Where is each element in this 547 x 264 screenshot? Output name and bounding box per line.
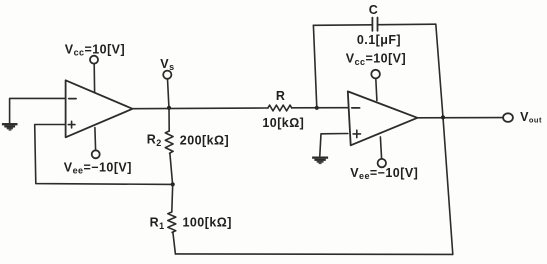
op-amp U1	[66, 80, 133, 137]
svg-text:200[kΩ]: 200[kΩ]	[180, 134, 229, 148]
wire U2 output	[417, 117, 503, 119]
wire Vs terminal to node A	[168, 79, 169, 107]
junction node B	[171, 182, 175, 186]
terminal Vee U1	[92, 150, 100, 158]
svg-text:Vcc=10[V]: Vcc=10[V]	[346, 51, 406, 66]
svg-text:C: C	[369, 3, 378, 17]
ground G1 (U1 inverting input)	[2, 124, 18, 130]
terminal Vcc U2	[371, 70, 380, 79]
svg-text:Vcc=10[V]: Vcc=10[V]	[65, 42, 125, 57]
terminal Vcc U1	[90, 56, 98, 64]
wire output node to capacitor top rail	[436, 24, 443, 117]
junction node D (output feedback node)	[441, 115, 445, 119]
wire Vee U1	[94, 128, 97, 151]
svg-text:R: R	[276, 89, 285, 103]
terminal Vee U2	[378, 159, 386, 167]
wire U1 inverting input to ground	[10, 98, 66, 123]
wire Vcc U2	[376, 79, 377, 101]
svg-text:R1: R1	[150, 216, 165, 232]
wire capacitor branch left riser	[313, 25, 316, 107]
wire Vcc U1	[93, 64, 95, 93]
wire R1 to bottom rail	[173, 232, 176, 254]
resistor R2	[165, 131, 173, 153]
terminal Vs	[163, 71, 171, 79]
wire Vee U2	[380, 137, 381, 159]
svg-text:100[kΩ]: 100[kΩ]	[183, 215, 232, 229]
wire R2 to node B	[170, 153, 173, 184]
wire node A to R2	[168, 108, 170, 131]
junction node C (U2 inverting input)	[315, 106, 319, 110]
wire capacitor top rail (right)	[378, 23, 436, 26]
svg-text:R2: R2	[147, 133, 162, 149]
resistor R1	[168, 212, 176, 232]
wire capacitor top rail (left)	[313, 24, 372, 27]
junction node A	[167, 106, 171, 110]
capacitor C	[372, 18, 377, 31]
resistor R	[268, 105, 292, 111]
wire R to U2 inverting input	[292, 107, 348, 109]
svg-text:Vout: Vout	[520, 110, 542, 125]
svg-text:0.1[μF]: 0.1[μF]	[357, 33, 401, 47]
wire bottom feedback rail	[175, 253, 452, 256]
terminal Vout	[503, 113, 513, 122]
wire U1 output to resistor R	[133, 107, 268, 110]
op-amp U2	[348, 91, 418, 145]
ground G2 (U2 non-inverting input)	[312, 158, 328, 164]
svg-text:Vs: Vs	[160, 57, 174, 72]
svg-text:10[kΩ]: 10[kΩ]	[262, 116, 304, 130]
wire U1 non-inverting input feedback	[35, 125, 173, 185]
wire node B to R1	[171, 184, 174, 212]
svg-text:Vee=−10[V]: Vee=−10[V]	[350, 166, 418, 181]
svg-text:Vee=−10[V]: Vee=−10[V]	[64, 160, 132, 175]
wire right feedback riser (bottom rail to output node)	[443, 117, 453, 254]
wire U2 non-inverting input to ground	[320, 134, 348, 156]
